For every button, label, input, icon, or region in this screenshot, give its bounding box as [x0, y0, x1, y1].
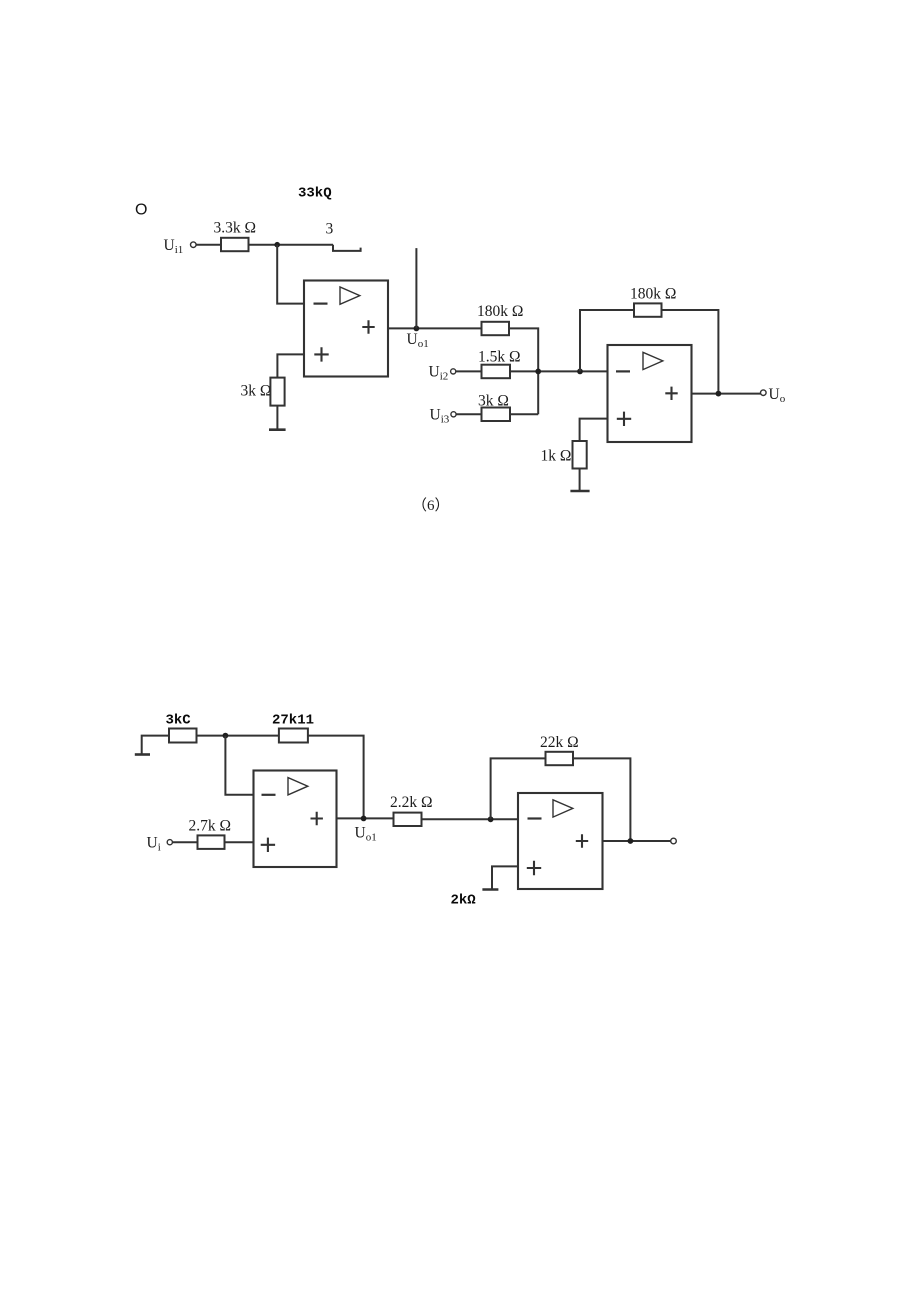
resistor 2.2k: [394, 813, 422, 826]
node A junction dot: [274, 242, 280, 248]
resistor 22k (feedback U4): [546, 752, 574, 765]
svg-text:Uo1: Uo1: [355, 825, 377, 844]
op-amp U4 plus (output side): [576, 834, 588, 847]
resistor 1k (to ground): [573, 441, 587, 469]
node Uo1 (bottom) label: [355, 825, 377, 844]
svg-text:180k Ω: 180k Ω: [630, 286, 676, 303]
terminal output (unlabeled): [671, 838, 677, 844]
wire Ui3 to R 3k: [456, 413, 481, 415]
svg-text:1k Ω: 1k Ω: [541, 448, 572, 465]
dangling vertical wire above Uo1: [415, 248, 417, 328]
wire U4 output to terminal: [603, 840, 671, 842]
svg-text:3: 3: [326, 221, 334, 238]
junction dot feedback/input U4: [488, 816, 494, 822]
wire U3 output to R 2.2k: [337, 817, 394, 819]
svg-text:180k Ω: 180k Ω: [477, 303, 523, 320]
resistor 180k value label (input): [477, 303, 523, 320]
node Ui3 label: [430, 407, 450, 426]
op-amp U2 plus (output side): [665, 387, 677, 400]
resistor 1k value label: [541, 448, 572, 465]
op-amp U1 minus sign: [314, 303, 328, 305]
resistor 2.7k value label: [189, 818, 232, 835]
node Uo1 label: [407, 331, 429, 350]
op-amp U1 plus (non-inverting input): [314, 347, 328, 361]
svg-text:Uo1: Uo1: [407, 331, 429, 350]
partial erased resistor outline: [333, 245, 361, 251]
op-amp U2: [608, 345, 692, 442]
wire non-inverting input of U1 to R 3k: [277, 354, 304, 377]
op-amp U4 minus sign: [528, 817, 542, 819]
resistor 2.2k value label: [390, 794, 433, 811]
node Ui label: [147, 835, 161, 854]
op-amp U3: [254, 771, 337, 868]
label 27k11 (bold overlay text): [272, 713, 314, 729]
wire U2 output to terminal Uo: [692, 393, 761, 395]
svg-text:27k11: 27k11: [272, 713, 314, 729]
resistor 3k (Ui3 branch): [482, 408, 511, 422]
resistor 3k (to ground): [270, 378, 284, 406]
svg-text:3k Ω: 3k Ω: [241, 383, 272, 400]
wire R2.2k to inverting input of U4: [422, 818, 519, 820]
svg-text:O: O: [135, 202, 147, 219]
wire R180k to summing bus: [509, 328, 538, 414]
op-amp U4 triangle: [553, 800, 573, 817]
junction dot output/feedback: [716, 391, 722, 397]
svg-text:（6）: （6）: [412, 497, 450, 514]
ground (below R3k): [269, 428, 286, 431]
node Ui1 label: [164, 237, 184, 256]
node Ui2 label: [429, 364, 449, 383]
resistor 2.7k: [198, 835, 225, 849]
ground (below U4 plus input): [482, 888, 498, 891]
svg-text:Ui: Ui: [147, 835, 161, 854]
node Uo1 (bottom) junction dot: [361, 816, 367, 822]
resistor 3k (bottom circuit): [169, 729, 197, 743]
op-amp U3 plus (non-inverting input): [261, 838, 275, 852]
wire non-inverting input of U4 to ground: [492, 866, 518, 889]
junction dot bus/1.5k: [535, 369, 541, 375]
op-amp U2 triangle: [643, 352, 663, 369]
svg-text:Ui2: Ui2: [429, 364, 449, 383]
ground (below R1k): [570, 490, 589, 493]
resistor 3k value label (Ui3): [478, 393, 509, 410]
terminal Ui: [167, 840, 172, 845]
wire node A down to inverting input of U1: [277, 245, 304, 304]
node Uo label: [769, 386, 786, 405]
svg-text:2.7k Ω: 2.7k Ω: [189, 818, 232, 835]
wire R3k to node B: [197, 735, 279, 737]
label 33kQ (bold overlay text): [298, 186, 332, 202]
wire R1.5k to inverting input of U2: [510, 370, 608, 372]
wire R22k down to U4 output: [573, 758, 630, 841]
svg-text:2.2k Ω: 2.2k Ω: [390, 794, 433, 811]
op-amp U1: [304, 281, 388, 377]
wire R3k to ground: [276, 406, 278, 430]
wire R1k to ground: [579, 469, 581, 492]
op-amp U3 triangle: [288, 778, 308, 795]
wire R3.3k to node A: [249, 244, 334, 246]
wire node B down to inverting input of U3: [225, 736, 253, 795]
resistor 27k (feedback U3): [279, 729, 308, 743]
op-amp U3 plus (output side): [311, 812, 323, 825]
wire feedback up to R 22k: [491, 758, 546, 819]
terminal Uo: [761, 390, 767, 396]
junction dot output/feedback U4: [628, 838, 634, 844]
op-amp U1 triangle: [340, 287, 360, 304]
svg-text:33kQ: 33kQ: [298, 186, 332, 202]
caption (6): [412, 497, 450, 514]
svg-text:1.5k Ω: 1.5k Ω: [478, 349, 521, 366]
wire Ui2 to R 1.5k: [456, 370, 482, 372]
label 2kOhm (bold overlay text): [451, 893, 477, 909]
label 3kC (bold overlay text): [166, 713, 192, 729]
wire R27k down to Uo1 node: [308, 736, 364, 819]
wire non-inverting input of U2 to R 1k: [580, 419, 608, 441]
wire R3k to summing bus: [510, 413, 538, 415]
leftover digit 3 of erased 33k label: [326, 221, 334, 238]
resistor 22k value label: [540, 734, 579, 751]
wire ground up to R 3k: [142, 736, 169, 755]
svg-text:Ui1: Ui1: [164, 237, 184, 256]
op-amp U2 minus sign: [616, 370, 630, 372]
op-amp U4 plus (non-inverting input): [527, 861, 541, 875]
op-amp U3 minus sign: [262, 794, 276, 796]
op-amp U1 plus (output side): [362, 320, 374, 333]
wire feedback right to output: [662, 310, 719, 394]
terminal Ui3: [451, 412, 456, 417]
letter O mark: [135, 202, 147, 219]
svg-text:Ui3: Ui3: [430, 407, 450, 426]
resistor 180k (from Uo1): [482, 322, 510, 335]
wire R2.7k to non-inverting input of U3: [225, 841, 254, 843]
node B junction dot: [223, 733, 229, 739]
svg-text:Uo: Uo: [769, 386, 786, 405]
resistor 3k value label: [241, 383, 272, 400]
resistor 180k feedback value label: [630, 286, 676, 303]
resistor 3.3k value label: [214, 220, 257, 237]
wire feedback left vertical to node: [580, 310, 634, 371]
svg-text:2kΩ: 2kΩ: [451, 893, 477, 909]
wire Ui1 to R 3.3k: [196, 244, 221, 246]
resistor 1.5k: [482, 365, 511, 379]
wire Ui to R 2.7k: [172, 841, 197, 843]
terminal Ui1: [191, 242, 197, 248]
op-amp U4: [518, 793, 603, 889]
ground (left of R3k): [135, 753, 150, 756]
node Uo1 junction dot: [414, 326, 420, 332]
junction dot feedback/input: [577, 369, 583, 375]
resistor 1.5k value label: [478, 349, 521, 366]
svg-text:22k Ω: 22k Ω: [540, 734, 579, 751]
wire U1 output to R 180k: [388, 327, 482, 329]
resistor 3.3k: [221, 238, 249, 251]
terminal Ui2: [451, 369, 456, 374]
svg-text:3kC: 3kC: [166, 713, 192, 729]
resistor 180k (feedback U2): [634, 303, 662, 316]
op-amp U2 plus (non-inverting input): [617, 412, 631, 426]
svg-text:3.3k Ω: 3.3k Ω: [214, 220, 257, 237]
